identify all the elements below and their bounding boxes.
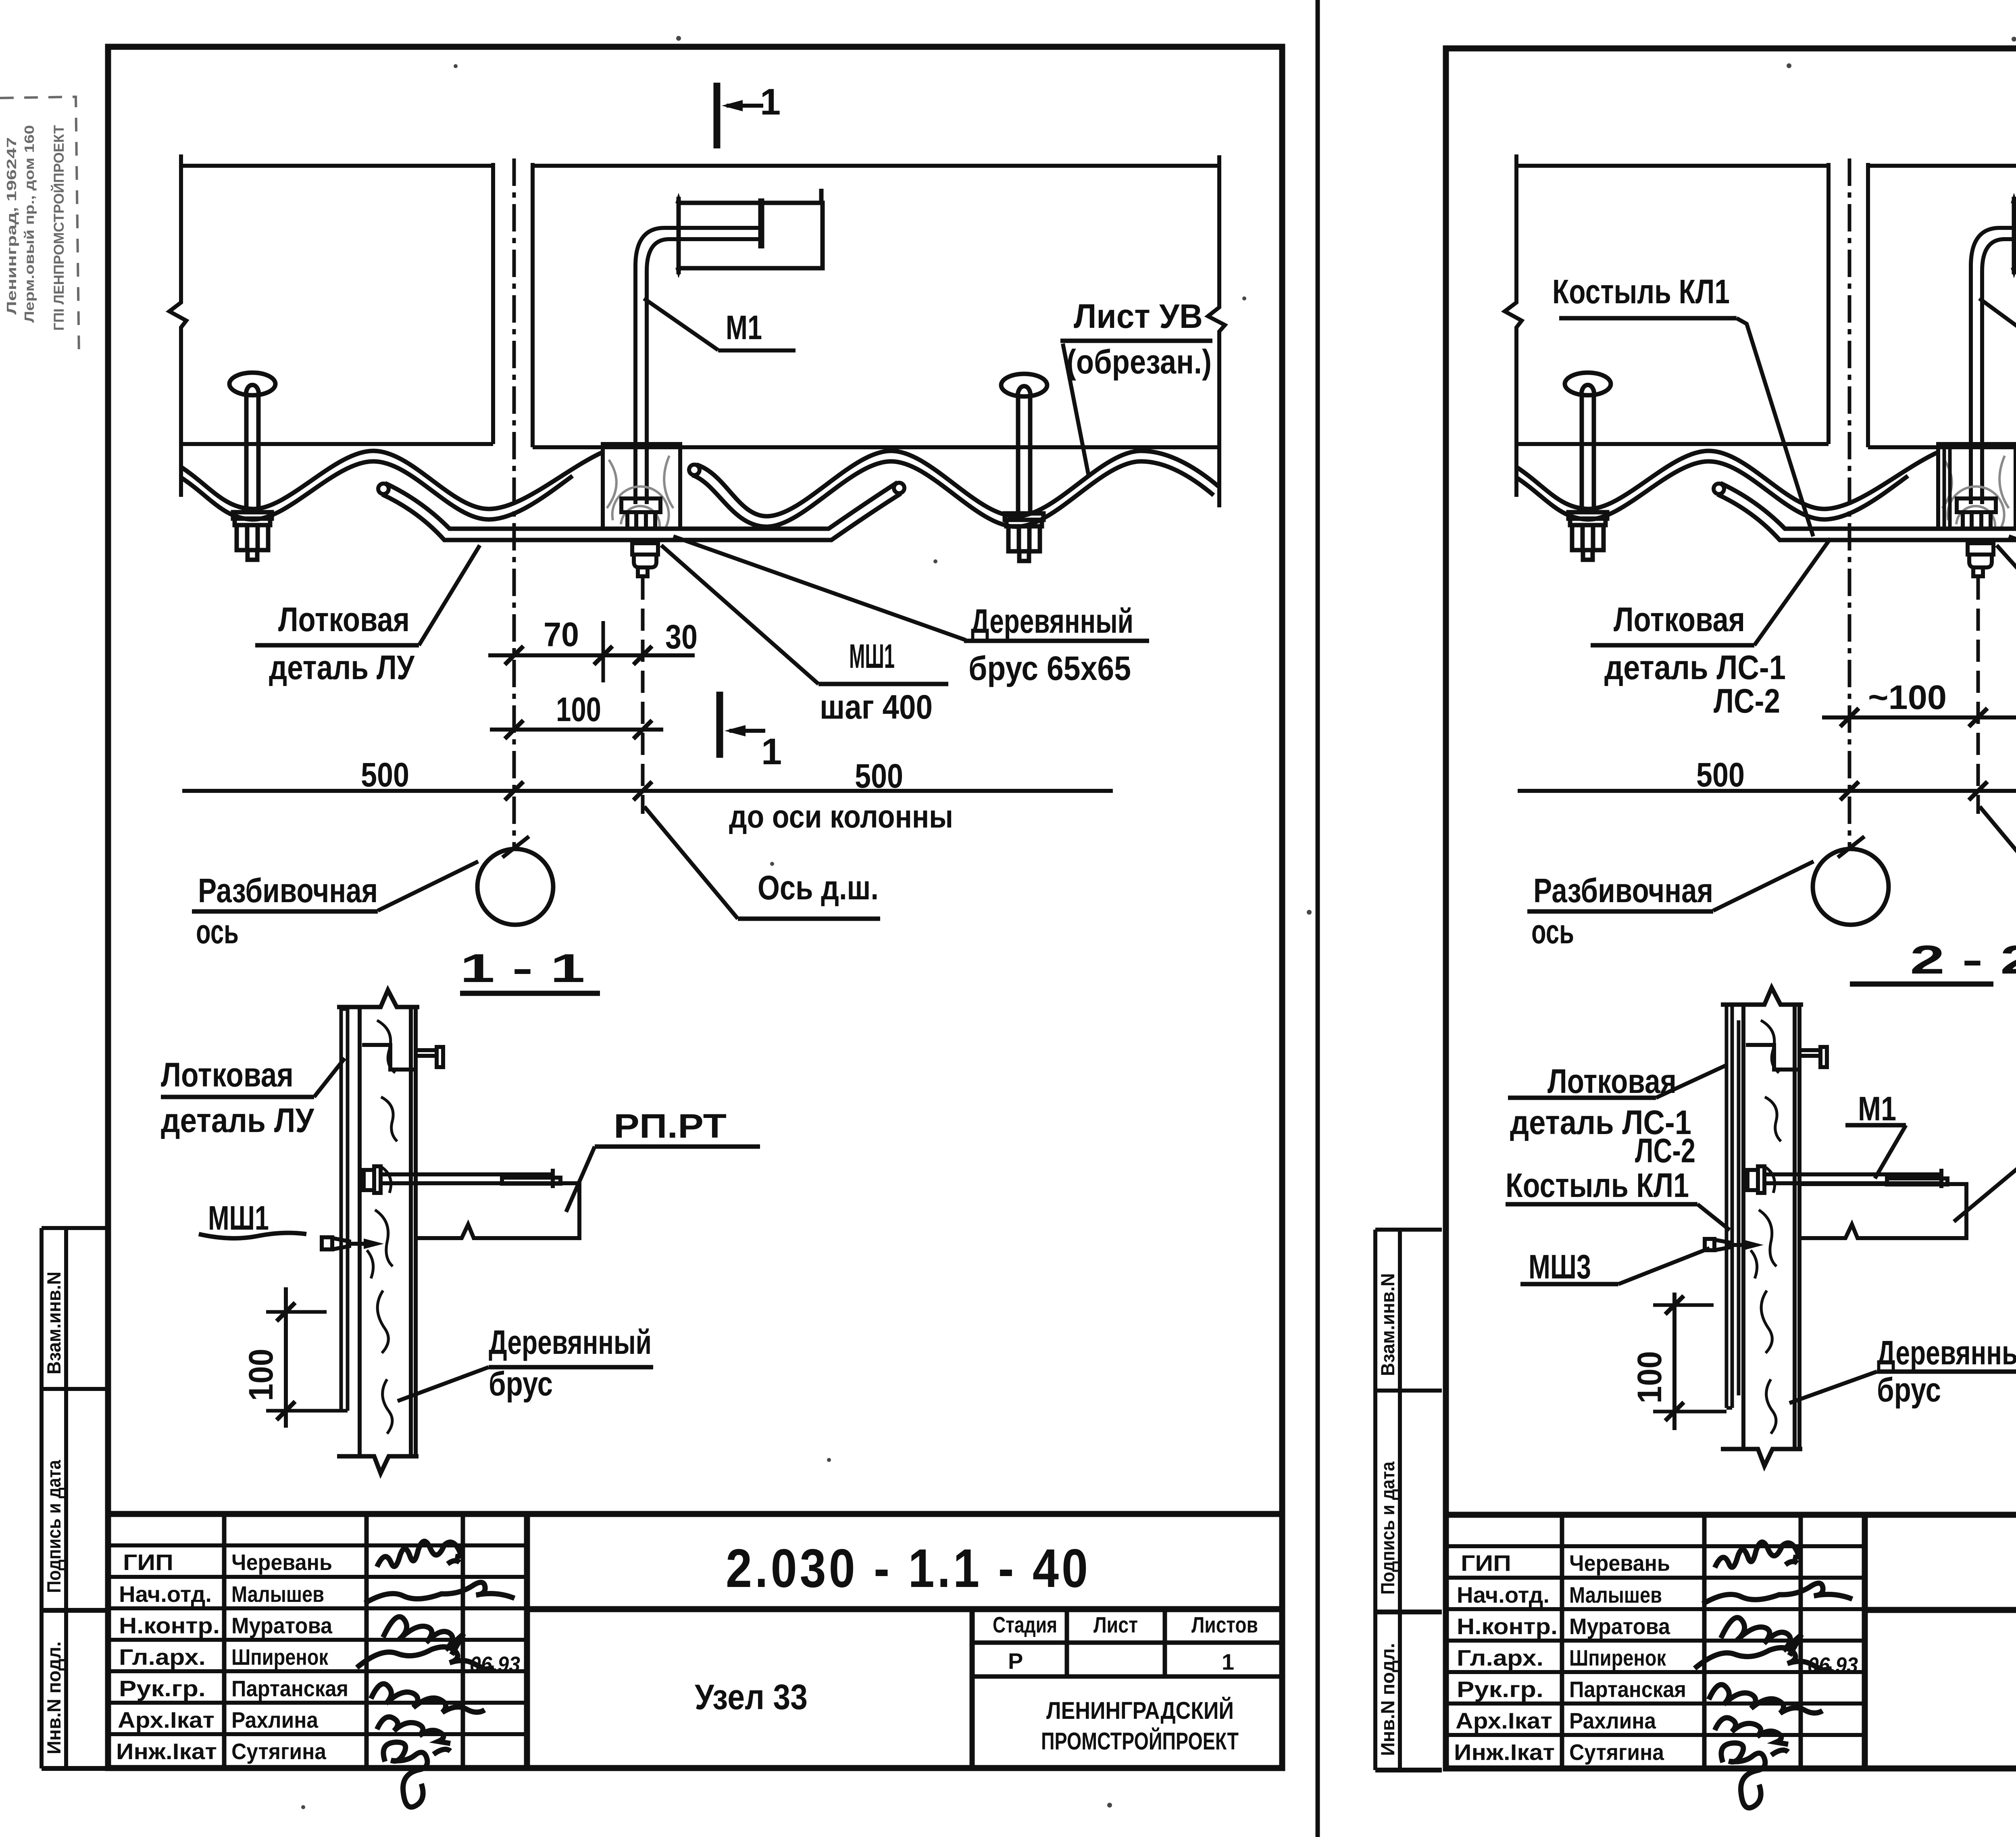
- corner stamp top-left (faint): [0, 97, 79, 359]
- sheet 1 roof drawing core: [169, 154, 1225, 925]
- svg-text:06.93: 06.93: [470, 1652, 520, 1676]
- svg-text:2.030 - 1.1 - 40: 2.030 - 1.1 - 40: [726, 1538, 1091, 1599]
- label Лотковая деталь ЛУ: [255, 545, 480, 686]
- svg-text:деталь ЛУ: деталь ЛУ: [161, 1101, 315, 1139]
- tray strip vertical: [341, 1009, 348, 1411]
- svg-text:деталь ЛС-1: деталь ЛС-1: [1604, 648, 1786, 686]
- label M1 (sheet 2): [1979, 298, 2016, 353]
- svg-text:до оси колонны: до оси колонны: [729, 799, 953, 834]
- label Деревянный брус 65x65: [673, 536, 1149, 687]
- MSh3 screw pointer: [1705, 1239, 1764, 1250]
- svg-text:(обрезан.): (обрезан.): [1066, 343, 1212, 381]
- svg-text:Лист УВ: Лист УВ: [1074, 297, 1203, 335]
- label Деревянный брус (2-2): [1789, 1334, 2016, 1409]
- svg-text:М1: М1: [726, 309, 762, 346]
- svg-text:МШ1: МШ1: [208, 1199, 269, 1237]
- svg-text:ось: ось: [196, 913, 239, 951]
- label Костыль КЛ1 (2-2): [1506, 1166, 1730, 1230]
- sheet 1 title block grid: [108, 1514, 1282, 1768]
- label Ось д.ш. (sheet 2): [1980, 807, 2016, 919]
- label Лист УВ (обрезан.): [1060, 297, 1212, 476]
- sheet 2 margin strip: [1375, 1230, 1442, 1770]
- label Костыль КЛ1: [1552, 273, 1813, 536]
- section title 2 - 2: [1850, 937, 2016, 984]
- label Лотковая деталь ЛУ (section): [161, 1056, 345, 1139]
- sheet 2 roof drawing core: [1505, 154, 2016, 925]
- svg-text:Лотковая: Лотковая: [161, 1056, 294, 1094]
- sheet 1 margin strip: [42, 1228, 108, 1768]
- label МШ3 (2-2): [1520, 1248, 1710, 1286]
- svg-text:ЛС-2: ЛС-2: [1714, 682, 1780, 720]
- svg-text:Ось д.ш.: Ось д.ш.: [758, 869, 879, 907]
- top angle bracket with bolt (2-2): [1746, 1045, 1827, 1070]
- svg-text:Ленинград, 196247: Ленинград, 196247: [4, 137, 19, 315]
- svg-text:Костыль КЛ1: Костыль КЛ1: [1552, 273, 1730, 311]
- svg-text:~100: ~100: [1868, 678, 1947, 716]
- svg-text:1 - 1: 1 - 1: [460, 946, 585, 991]
- label Деревянный брус (section): [398, 1323, 653, 1403]
- svg-text:брус 65х65: брус 65х65: [968, 649, 1131, 687]
- RT/RP plank: [1799, 1178, 1966, 1238]
- svg-text:Деревянный: Деревянный: [1877, 1334, 2016, 1372]
- page divider line between scanned sheets: [1316, 0, 1320, 1837]
- dimension 500 500: [182, 756, 1113, 800]
- label M1: [644, 298, 796, 350]
- sheet 1 signatures: [357, 1541, 514, 1807]
- svg-text:ГПI ЛЕНПРОМСТРОЙПРОЕКТ: ГПI ЛЕНПРОМСТРОЙПРОЕКТ: [51, 125, 67, 331]
- svg-text:Деревянный: Деревянный: [489, 1323, 652, 1361]
- beam wood grain (2-2): [1751, 1020, 1781, 1434]
- section mark 1 bottom: [720, 692, 782, 772]
- svg-text:брус: брус: [1877, 1371, 1941, 1409]
- sheet 2 frame: [1446, 48, 2016, 1768]
- label Лотковая деталь ЛС-1 ЛС-2 (2-2): [1508, 1062, 1727, 1170]
- wooden beam vertical: [337, 990, 419, 1473]
- section mark 1 top: [717, 81, 781, 148]
- MSh1 screw pointer: [322, 1237, 384, 1249]
- kostyl lines in block: [1944, 447, 1950, 529]
- svg-text:500: 500: [855, 757, 903, 795]
- sheet 2 title block grid: [1446, 1515, 2016, 1769]
- svg-text:ось: ось: [1531, 913, 1574, 951]
- sheet 2 signatures: [1695, 1542, 1852, 1808]
- label Разбивочная ось (sheet 2): [1527, 861, 1814, 951]
- svg-text:30: 30: [665, 618, 698, 656]
- svg-text:06.93: 06.93: [1808, 1653, 1858, 1677]
- RP/RT plank: [416, 1178, 579, 1238]
- middle bolt with rod (2-2): [1747, 1166, 1941, 1193]
- sheet 1 title block texts: [116, 1549, 1258, 1764]
- dimension 70 / 30: [488, 615, 698, 682]
- middle bolt with rod: [364, 1166, 553, 1193]
- svg-text:Узел 33: Узел 33: [695, 1677, 808, 1717]
- label Деревянный брус 65x65 (sheet 2): [2009, 536, 2016, 687]
- svg-text:100: 100: [556, 690, 601, 728]
- svg-text:Костыль КЛ1: Костыль КЛ1: [1506, 1166, 1689, 1204]
- svg-text:1: 1: [761, 731, 782, 772]
- svg-text:РП.РТ: РП.РТ: [614, 1107, 727, 1145]
- svg-text:500: 500: [1696, 756, 1745, 794]
- top angle bracket with bolt: [362, 1045, 443, 1070]
- svg-text:100: 100: [242, 1349, 280, 1401]
- dimension 100: [490, 690, 663, 739]
- label МШ1 шаг 400: [661, 545, 948, 726]
- label РТ.РП (2-2): [1954, 1109, 2016, 1222]
- svg-text:ЛС-2: ЛС-2: [1635, 1132, 1695, 1170]
- svg-text:Деревянный: Деревянный: [971, 602, 1133, 640]
- dimension 500 500 (sheet 2): [1518, 751, 2016, 800]
- svg-text:2 - 2: 2 - 2: [1910, 937, 2016, 982]
- svg-text:70: 70: [544, 615, 579, 653]
- svg-text:МШ1: МШ1: [849, 637, 895, 675]
- svg-text:МШ3: МШ3: [1529, 1248, 1591, 1286]
- svg-text:Лотковая: Лотковая: [1547, 1062, 1677, 1100]
- tray strip vertical (2-2): [1727, 1005, 1739, 1408]
- wooden beam vertical (2-2): [1721, 988, 1803, 1466]
- svg-text:Разбивочная: Разбивочная: [1533, 872, 1713, 909]
- dimension 100 (section): [242, 1287, 341, 1428]
- label Разбивочная ось: [192, 861, 478, 951]
- beam wood grain: [367, 1020, 397, 1434]
- svg-text:Разбивочная: Разбивочная: [198, 872, 378, 909]
- svg-text:шаг 400: шаг 400: [820, 688, 933, 726]
- svg-text:Лотковая: Лотковая: [278, 601, 410, 638]
- dimension 100 (2-2): [1631, 1293, 1727, 1430]
- svg-text:брус: брус: [489, 1365, 553, 1403]
- svg-text:1: 1: [760, 81, 781, 123]
- label РП.РТ: [566, 1107, 760, 1212]
- sheet 1 frame: [108, 47, 1282, 1768]
- svg-text:деталь ЛУ: деталь ЛУ: [269, 648, 415, 686]
- label Ось д.ш.: [644, 807, 880, 919]
- svg-text:Лотковая: Лотковая: [1614, 601, 1745, 638]
- label M1 (2-2): [1845, 1090, 1906, 1178]
- svg-text:500: 500: [361, 756, 409, 794]
- sheet 2 title block texts: [1454, 1550, 2016, 1765]
- label МШ1 (section): [199, 1199, 306, 1238]
- label Лотковая деталь ЛС-1 ЛС-2: [1591, 538, 1831, 720]
- section title 1 - 1: [460, 946, 600, 993]
- svg-text:Лерм.овый пр., дом 160: Лерм.овый пр., дом 160: [22, 125, 37, 323]
- svg-text:100: 100: [1631, 1351, 1668, 1403]
- svg-text:М1: М1: [1858, 1090, 1896, 1128]
- dimension ~100: [1822, 678, 2016, 727]
- label МШ3 шаг 400: [1997, 545, 2016, 726]
